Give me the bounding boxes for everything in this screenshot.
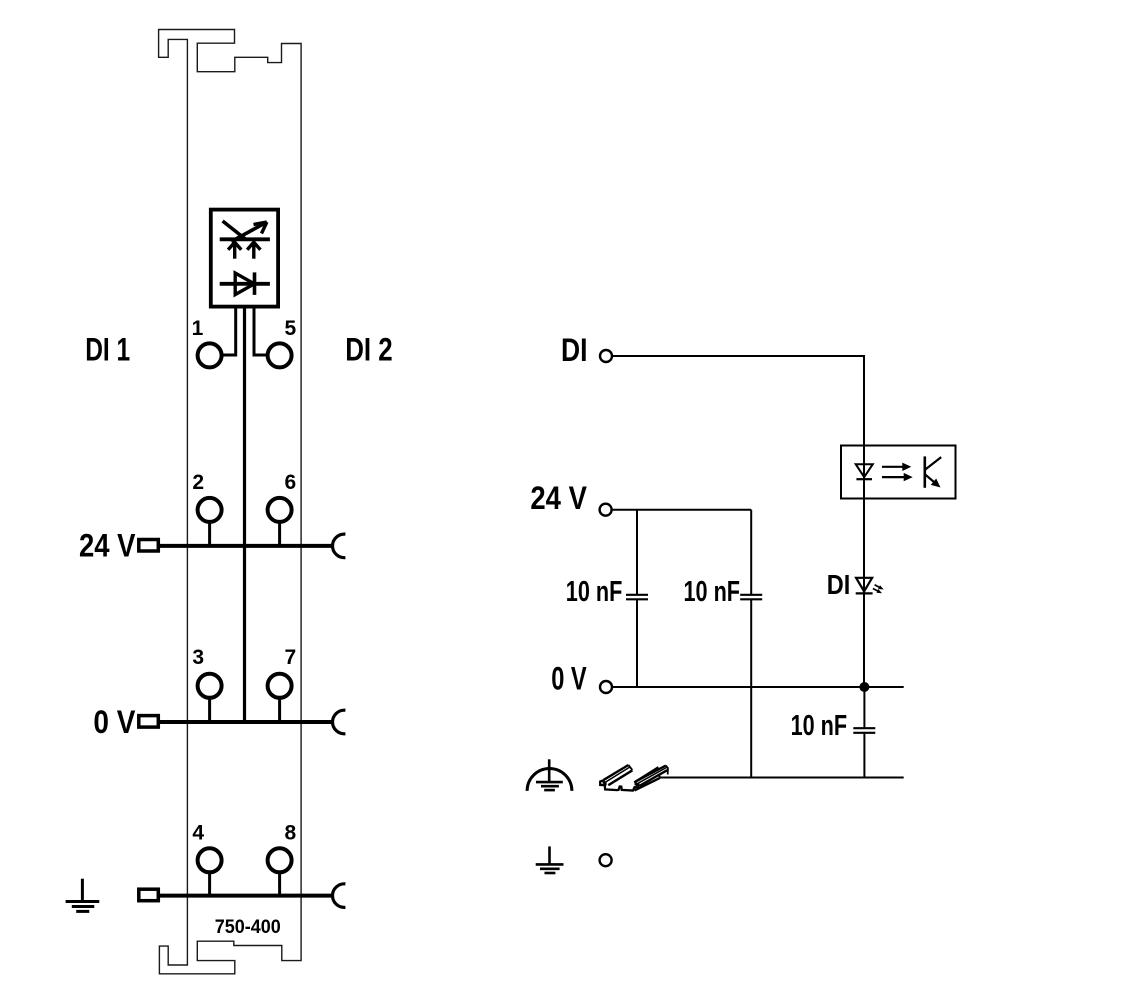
LED DI light arrow 2: [873, 589, 879, 592]
ground symbol left module: [66, 879, 100, 912]
terminal 24V circle: [600, 504, 612, 516]
DIN rail symbol: [600, 765, 668, 791]
svg-text:10 nF: 10 nF: [566, 576, 623, 608]
pin 5 circle: [268, 343, 292, 367]
pin 8 circle: [268, 848, 292, 872]
optocoupler U2 box: [841, 446, 956, 499]
svg-text:4: 4: [192, 821, 204, 844]
wire: mid cap branch upper: [750, 510, 752, 594]
svg-text:DI: DI: [827, 569, 851, 600]
terminal 0V circle: [600, 681, 612, 693]
connector clamp 24V: [333, 534, 346, 558]
terminal circle bottom: [600, 854, 612, 866]
svg-text:DI 2: DI 2: [345, 332, 393, 368]
connector clamp 0V: [333, 710, 346, 734]
LED indicator symbol: diagonal stroke: [223, 221, 246, 239]
wire: pin 8 stem: [278, 872, 281, 895]
pin 1 circle: [198, 343, 222, 367]
LED indicator symbol: up arrow left: [233, 243, 236, 259]
svg-text:7: 7: [285, 646, 297, 669]
pin 2 circle: [198, 498, 222, 522]
svg-text:2: 2: [192, 471, 204, 494]
svg-text:24 V: 24 V: [530, 480, 587, 516]
capacitor C1 plates: [626, 594, 648, 596]
wire: earth rail: [160, 894, 334, 898]
wire: C3 to chassis rail: [863, 734, 865, 778]
capacitor C2 plates: [740, 594, 762, 596]
module 750-400 housing outline: [159, 30, 302, 974]
svg-text:1: 1: [192, 317, 204, 340]
diode D1 triangle: [235, 273, 254, 295]
optocoupler phototransistor collector: [925, 457, 941, 470]
wire: box right lead to pin 5: [254, 307, 268, 356]
ground symbol bottom: [536, 846, 564, 873]
svg-text:24 V: 24 V: [79, 528, 136, 564]
wire: pin 6 stem: [278, 522, 281, 546]
diode D1 in indicator box: anode line: [220, 282, 270, 286]
LED indicator symbol: bar: [220, 237, 270, 241]
junction node: [859, 682, 869, 692]
optocoupler phototransistor base: [923, 456, 926, 487]
pin 3 circle: [198, 674, 222, 698]
connector clamp earth: [333, 884, 346, 908]
svg-text:5: 5: [285, 317, 297, 340]
LED indicator box U1: [211, 210, 278, 307]
pin 4 circle: [198, 848, 222, 872]
pin 7 circle: [268, 674, 292, 698]
svg-text:6: 6: [285, 471, 297, 494]
svg-text:DI: DI: [561, 332, 588, 368]
optocoupler LED triangle: [856, 464, 873, 477]
connector flag 24V: [139, 540, 159, 552]
svg-text:3: 3: [192, 646, 204, 669]
wire: 24V rail: [160, 544, 334, 548]
diode D1 cathode bar: [253, 272, 257, 295]
wire: left cap branch lower: [636, 600, 638, 687]
connector flag earth: [139, 889, 159, 901]
wire: pin 7 stem: [278, 698, 281, 722]
svg-text:750-400: 750-400: [215, 917, 281, 938]
LED DI light arrow 1: [875, 585, 881, 588]
wire: pin 4 stem: [208, 872, 211, 895]
optocoupler light arrow bottom: [882, 476, 905, 478]
wire: chassis rail: [660, 777, 904, 779]
wire: left cap branch upper: [636, 510, 638, 594]
wire: mid cap branch lower: [750, 600, 752, 778]
LED DI cathode bar: [856, 592, 873, 594]
wire: central bus: [243, 307, 246, 723]
svg-text:8: 8: [285, 821, 297, 844]
svg-text:0 V: 0 V: [93, 704, 136, 740]
svg-text:0 V: 0 V: [551, 661, 587, 697]
svg-text:DI 1: DI 1: [85, 332, 130, 368]
capacitor C3 plates: [853, 727, 875, 729]
wire: box left lead to pin 1: [222, 307, 236, 356]
LED indicator symbol: up arrow right: [252, 243, 255, 259]
LED indicator symbol: diagonal arrow: [231, 223, 264, 241]
svg-text:10 nF: 10 nF: [684, 576, 741, 608]
wire: pin 2 stem: [208, 522, 211, 546]
optocoupler light arrow top: [882, 466, 904, 468]
svg-text:10 nF: 10 nF: [791, 710, 848, 742]
optocoupler LED bar: [856, 478, 872, 480]
wire: DI to optocoupler: [612, 356, 864, 687]
wire: 0V rail: [160, 720, 334, 724]
connector flag 0V: [139, 716, 159, 728]
wire: junction to C3: [863, 687, 865, 727]
optocoupler phototransistor emitter: [925, 474, 937, 484]
wire: 24V feed: [612, 509, 751, 511]
pin 6 circle: [268, 498, 292, 522]
terminal DI circle: [600, 350, 612, 362]
wire: pin 3 stem: [208, 698, 211, 722]
LED DI triangle: [856, 578, 872, 592]
earth dome symbol: [527, 769, 572, 791]
wire: 0V rail: [612, 686, 904, 688]
